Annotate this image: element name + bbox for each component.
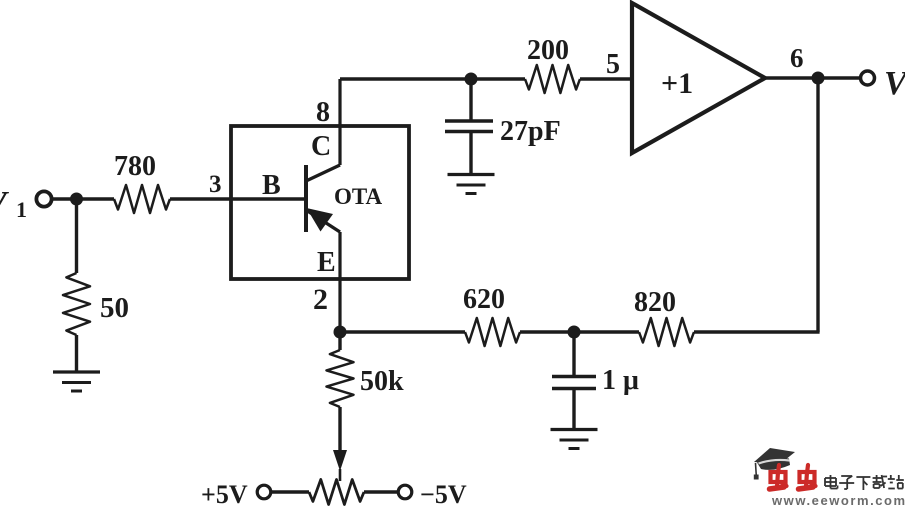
svg-text:www.eeworm.com: www.eeworm.com	[771, 493, 905, 506]
svg-text:+5V: +5V	[201, 480, 248, 506]
svg-text:V: V	[884, 65, 905, 102]
svg-text:B: B	[262, 170, 281, 201]
svg-text:1 μ: 1 μ	[602, 365, 639, 396]
svg-text:−5V: −5V	[420, 480, 467, 506]
svg-text:E: E	[317, 247, 336, 278]
svg-text:2: 2	[313, 283, 328, 316]
svg-text:780: 780	[114, 151, 156, 182]
svg-text:6: 6	[790, 43, 804, 73]
svg-text:50k: 50k	[360, 366, 404, 397]
svg-text:C: C	[311, 131, 331, 162]
svg-text:620: 620	[463, 284, 505, 315]
svg-text:3: 3	[209, 171, 222, 198]
svg-text:820: 820	[634, 287, 676, 318]
svg-text:1: 1	[16, 197, 27, 222]
svg-text:27pF: 27pF	[500, 116, 561, 147]
svg-text:+1: +1	[661, 67, 693, 100]
svg-text:OTA: OTA	[334, 184, 383, 209]
svg-text:50: 50	[100, 292, 129, 324]
svg-text:8: 8	[316, 97, 330, 128]
svg-text:5: 5	[606, 49, 620, 80]
svg-text:200: 200	[527, 35, 569, 66]
